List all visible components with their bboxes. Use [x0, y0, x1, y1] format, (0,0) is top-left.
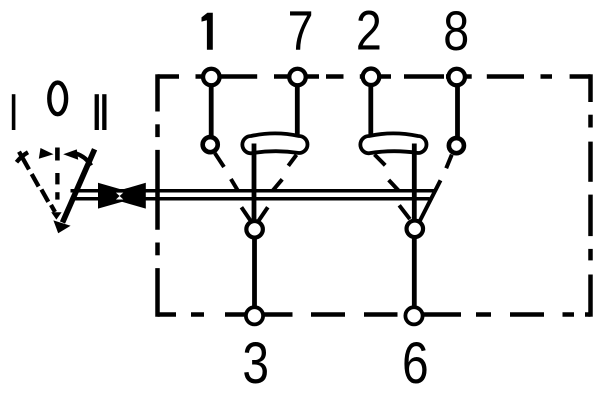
position label II	[95, 94, 107, 130]
contact 1 lower circle	[203, 137, 218, 152]
wire: rod top line	[71, 189, 436, 193]
arc arrowhead right-pointing	[39, 148, 54, 159]
pivot 3 circle	[246, 221, 263, 238]
terminal 7 stem	[295, 83, 300, 140]
lever (solid)	[63, 149, 95, 222]
contact 1 arm (broken)	[215, 153, 238, 190]
center position dashed line	[55, 173, 59, 184]
wire: right border segments	[588, 74, 593, 316]
rocker A right arm (broken)	[273, 155, 297, 191]
pivot 3 V arms	[241, 207, 267, 221]
svg-text:8: 8	[443, 0, 469, 62]
svg-text:2: 2	[356, 0, 382, 61]
svg-text:6: 6	[402, 332, 429, 397]
pivot 6 vertical line	[412, 144, 417, 221]
terminal 6 stem	[412, 237, 417, 309]
lever arrowhead	[53, 220, 70, 233]
wire: top border segments	[158, 74, 591, 79]
center position small arrowhead	[51, 212, 61, 219]
rocker bridge B (under 2)	[360, 133, 426, 153]
lever travel arc (dashed, left piece)	[17, 152, 29, 162]
pivot 6 left V arm	[399, 205, 410, 219]
contact 8 arm (broken, engaged to pivot 6)	[419, 155, 452, 223]
terminal 3 circle	[246, 307, 263, 324]
svg-text:7: 7	[288, 0, 314, 61]
contact 8 lower circle	[449, 138, 464, 153]
terminal 6 circle	[405, 307, 422, 324]
label 1	[202, 13, 213, 50]
center position tick	[55, 148, 60, 161]
position label I	[12, 94, 16, 130]
terminal 8 stem	[455, 83, 460, 141]
wire: bottom border segments	[158, 312, 591, 317]
lever alternate position (dashed diagonal)	[19, 152, 55, 212]
pivot 3 vertical line	[252, 144, 257, 222]
rocker bridge A (under 7)	[242, 133, 307, 153]
terminal 1 stem	[209, 83, 214, 140]
rod coupling arrows (bowtie)	[98, 183, 146, 209]
rocker B left arm (broken)	[375, 155, 399, 191]
lever travel arc (solid, right piece)	[76, 154, 91, 166]
terminal 1 circle	[203, 69, 220, 86]
actuator rod (double line)	[71, 191, 436, 199]
wire: rod bottom line	[71, 197, 430, 201]
arc arrowhead left-pointing	[63, 149, 78, 159]
position label 0	[49, 83, 66, 115]
pivot 6 circle	[407, 221, 424, 238]
terminal 2 stem	[368, 83, 373, 140]
terminal 7 circle	[289, 69, 306, 86]
svg-text:3: 3	[242, 332, 269, 397]
terminal 8 circle	[448, 69, 465, 86]
wire: left border segments	[155, 74, 160, 316]
white hourglass gap in bowtie	[116, 193, 123, 200]
terminal 3 stem	[252, 237, 257, 309]
terminal 2 circle	[363, 69, 380, 86]
